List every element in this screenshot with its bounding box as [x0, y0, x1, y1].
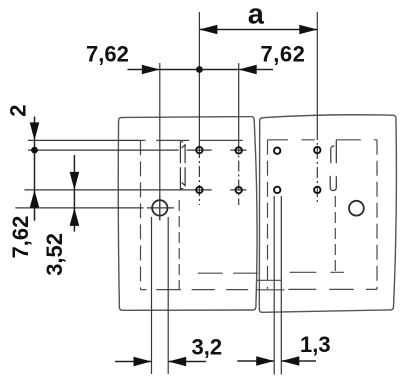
mounting hole horizontal centerline — [15, 207, 174, 209]
dimension a line — [199, 29, 317, 31]
contact slot left block upper — [180, 142, 185, 163]
mounting hole right — [349, 201, 364, 216]
svg-text:3,52: 3,52 — [42, 233, 67, 276]
arrow 3,2 left — [134, 357, 152, 367]
pin column 4 centerline — [316, 12, 318, 129]
pin hole row1 col4 — [314, 147, 320, 153]
crosshair left hole vertical — [159, 196, 161, 221]
pin hole row1 col2 — [236, 147, 242, 153]
centerline mounting hole left, vertical — [159, 63, 161, 220]
reference line 2mm — [28, 139, 141, 141]
arrow 1,3 left — [256, 356, 274, 366]
row 2 centerline — [24, 189, 246, 191]
arrow 2 down — [30, 122, 40, 140]
mounting hole left — [152, 200, 167, 215]
pin hole row2 col1 — [196, 187, 202, 193]
pin column 1 centerline — [198, 12, 200, 147]
svg-text:3,2: 3,2 — [192, 334, 223, 359]
row 1 centerline — [28, 149, 179, 151]
hole drill tangent lines 3,2 — [152, 217, 169, 374]
vertical dimension line 2 / 7,62 — [34, 117, 36, 221]
svg-text:1,3: 1,3 — [300, 332, 331, 357]
pin hole row2 col4 — [314, 187, 320, 193]
contact slot left block lower — [180, 167, 185, 188]
dashed contour right block — [268, 140, 378, 290]
contact slot right block lower — [330, 176, 336, 191]
svg-text:2: 2 — [6, 105, 31, 117]
interlock lines between blocks — [257, 280, 285, 290]
arrow 1,3 right — [281, 356, 299, 366]
arrow 3,2 right — [168, 357, 186, 367]
pin column 3 drill tangent lines 1,3 — [274, 196, 281, 375]
arrow 3,52 down — [70, 172, 80, 190]
arrow 7,62 right — [239, 65, 257, 75]
svg-text:a: a — [248, 0, 265, 31]
svg-text:7,62: 7,62 — [8, 216, 33, 259]
dimension 1,3 — [237, 360, 316, 362]
housing outline left block — [118, 117, 257, 311]
dimension 3,2 — [115, 361, 206, 363]
dashed contour left block — [141, 140, 258, 289]
housing outline right block — [259, 115, 396, 313]
arrow 7,62 left — [142, 65, 160, 75]
contact slot right block upper — [331, 140, 337, 163]
svg-text:7,62: 7,62 — [261, 42, 306, 67]
pin hole row1 col1 — [196, 147, 202, 153]
arrow 3,52 up — [70, 208, 80, 226]
dimension a arrow left — [199, 25, 217, 35]
origin dot left — [31, 147, 38, 154]
dimension a arrow right — [299, 25, 317, 35]
origin dot — [196, 66, 203, 73]
pin hole row2 col2 — [236, 187, 242, 193]
dimension 7,62 horizontal line — [128, 69, 274, 71]
pin hole row1 col3 — [274, 148, 280, 154]
vertical dimension line 3,52 — [73, 155, 75, 232]
svg-text:7,62: 7,62 — [86, 42, 129, 67]
arrow 7,62 up — [30, 190, 40, 208]
pin hole row2 col3 — [274, 187, 280, 193]
pin column 2 centerline — [238, 63, 240, 142]
